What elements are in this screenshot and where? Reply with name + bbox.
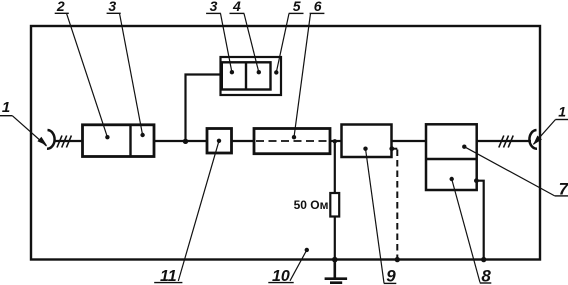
svg-text:6: 6 bbox=[314, 0, 322, 14]
label underline 1 right bbox=[556, 119, 568, 121]
block 9 (box) bbox=[342, 125, 392, 158]
leader arrowhead 1 right bbox=[533, 136, 542, 146]
wire bbox=[330, 140, 342, 142]
block 6 (long box) bbox=[254, 129, 330, 154]
block 3/4 divider bbox=[245, 62, 247, 89]
label underline 9 bbox=[384, 282, 397, 284]
node junction bbox=[332, 257, 338, 263]
svg-text:9: 9 bbox=[386, 266, 396, 285]
leader line label 5 bbox=[276, 14, 289, 73]
wire bbox=[154, 140, 207, 142]
wire bbox=[232, 140, 255, 142]
svg-text:7: 7 bbox=[559, 180, 568, 199]
leader line label 6 bbox=[294, 14, 311, 138]
block 3 / block 4 (inner double box) bbox=[222, 62, 271, 89]
wire (branch up to block 5) bbox=[186, 75, 221, 142]
leader dot 10 bbox=[305, 248, 309, 252]
label underline 3b bbox=[206, 12, 221, 14]
leader dot 3b bbox=[230, 70, 234, 74]
wire bbox=[334, 217, 336, 260]
svg-text:3: 3 bbox=[108, 0, 116, 14]
leader dot 4 bbox=[257, 70, 261, 74]
svg-text:11: 11 bbox=[160, 268, 177, 285]
wire bbox=[477, 140, 531, 142]
label underline 10 bbox=[268, 282, 293, 284]
leader dot 2 bbox=[105, 135, 109, 139]
wire (block 8 down to bottom) bbox=[476, 181, 483, 260]
wire (down to resistor) bbox=[334, 141, 336, 194]
svg-text:5: 5 bbox=[293, 0, 301, 14]
leader dot 9 bbox=[363, 147, 367, 151]
svg-text:50 Ом: 50 Ом bbox=[294, 198, 329, 212]
block 6 dashed center line bbox=[256, 140, 328, 142]
ground bbox=[325, 260, 348, 283]
resistor 50 Ом bbox=[330, 193, 339, 217]
dashed control line bbox=[396, 150, 398, 259]
leader dot 7 bbox=[462, 145, 466, 149]
node junction bbox=[481, 257, 486, 262]
label underline 5 bbox=[289, 12, 304, 14]
node junction bbox=[395, 257, 400, 262]
leader dot 11 bbox=[217, 139, 221, 143]
connector 1 (left, coaxial socket) bbox=[47, 130, 55, 149]
leader dot 6 bbox=[292, 135, 296, 139]
label underline 6 bbox=[310, 12, 325, 14]
label underline 3a bbox=[107, 12, 121, 14]
label underline 7 bbox=[555, 195, 568, 197]
svg-text:10: 10 bbox=[272, 268, 290, 285]
block 2 (box, left part) bbox=[83, 125, 155, 157]
svg-text:3: 3 bbox=[210, 0, 218, 14]
label underline 11 bbox=[154, 282, 182, 284]
leader line label 9 bbox=[366, 149, 385, 283]
leader line label 7 bbox=[464, 147, 554, 196]
leader line label 3b bbox=[221, 14, 232, 73]
wire bbox=[392, 140, 427, 142]
leader line label 2 bbox=[67, 13, 108, 137]
label underline 2 bbox=[55, 12, 69, 14]
wire stub bbox=[392, 148, 398, 150]
coax hatch marks (left) bbox=[57, 136, 71, 148]
coax hatch marks (right) bbox=[499, 136, 513, 148]
leader dot 3a bbox=[140, 133, 144, 137]
connector 1 (right, coaxial socket) bbox=[529, 130, 537, 149]
leader line label 10 bbox=[290, 250, 307, 281]
leader dot 5 bbox=[274, 70, 278, 74]
svg-text:2: 2 bbox=[56, 0, 65, 14]
leader line label 3a bbox=[120, 13, 143, 135]
block 5 (outer box, top) bbox=[221, 57, 282, 95]
leader line label 1 right bbox=[534, 120, 556, 145]
svg-text:1: 1 bbox=[558, 103, 566, 119]
block 11 (small box) bbox=[207, 129, 232, 154]
block 7 / block 8 (stacked boxes) bbox=[426, 124, 477, 190]
label underline 8 bbox=[480, 282, 492, 284]
leader line label 4 bbox=[244, 14, 259, 73]
enclosure box 10 bbox=[31, 26, 540, 260]
node junction bbox=[333, 139, 337, 143]
node junction bbox=[183, 139, 188, 144]
label underline 1 left bbox=[0, 115, 12, 117]
leader line label 11 bbox=[178, 141, 219, 281]
svg-text:1: 1 bbox=[2, 99, 10, 116]
leader dot 8 bbox=[450, 177, 454, 181]
leader line label 8 bbox=[452, 179, 480, 283]
node on block 9 right edge bbox=[389, 146, 394, 151]
wire bbox=[54, 140, 84, 142]
leader line label 1 left bbox=[12, 116, 46, 146]
svg-text:4: 4 bbox=[232, 0, 241, 14]
leader arrowhead 1 left bbox=[37, 137, 47, 146]
block 7/8 divider bbox=[426, 158, 477, 161]
label underline 4 bbox=[230, 12, 245, 14]
block 3 divider (box A) bbox=[129, 125, 131, 157]
node on block 8 right edge bbox=[474, 178, 479, 183]
svg-text:8: 8 bbox=[481, 266, 491, 285]
